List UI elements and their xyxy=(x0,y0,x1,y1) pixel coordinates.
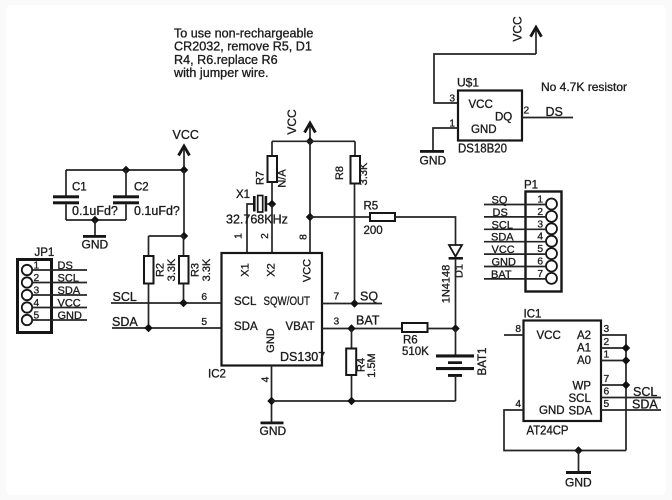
svg-text:1: 1 xyxy=(234,233,245,239)
svg-text:0.1uFd?: 0.1uFd? xyxy=(72,204,118,218)
svg-text:DS1307: DS1307 xyxy=(280,350,325,364)
svg-text:R6: R6 xyxy=(403,334,418,346)
resistor R2 xyxy=(144,236,178,328)
svg-text:CR2032, remove R5, D1: CR2032, remove R5, D1 xyxy=(174,40,312,54)
node junction crystal R7 xyxy=(268,200,276,208)
svg-text:2: 2 xyxy=(260,233,271,239)
node junction C2 top xyxy=(122,166,130,174)
svg-text:A1: A1 xyxy=(577,343,591,355)
svg-text:X1: X1 xyxy=(240,263,252,276)
svg-text:SCL: SCL xyxy=(492,219,513,231)
svg-text:DS: DS xyxy=(58,260,73,272)
op-amp U$1 box xyxy=(449,76,529,156)
svg-text:U$1: U$1 xyxy=(457,76,479,90)
svg-text:VCC: VCC xyxy=(537,330,561,342)
svg-text:GND: GND xyxy=(260,424,287,438)
svg-text:X2: X2 xyxy=(266,263,278,276)
svg-text:BAT1: BAT1 xyxy=(477,348,489,376)
svg-text:SDA: SDA xyxy=(234,321,258,333)
wire A1 xyxy=(601,347,626,349)
svg-text:GND: GND xyxy=(492,257,517,269)
wire R2 R3 top rail xyxy=(149,235,185,237)
svg-text:7: 7 xyxy=(604,374,610,385)
svg-text:DS18B20: DS18B20 xyxy=(458,142,507,156)
note text xyxy=(173,26,313,80)
wire pin8 VCC drop xyxy=(309,141,311,253)
crystal X1 xyxy=(226,189,288,253)
wire WP xyxy=(601,384,626,386)
node junction R2 R3 rail xyxy=(180,232,188,240)
svg-text:JP1: JP1 xyxy=(35,247,55,259)
VCC symbol middle xyxy=(285,109,317,141)
ground IC1 xyxy=(565,471,592,490)
node junction R3 SCL xyxy=(179,299,187,307)
svg-text:SCL: SCL xyxy=(234,296,257,308)
wire JP1 pin4 VCC xyxy=(32,298,87,310)
svg-text:200: 200 xyxy=(364,225,383,237)
wire R5 to D1 xyxy=(395,217,456,245)
svg-text:3: 3 xyxy=(604,324,610,335)
svg-text:C1: C1 xyxy=(72,182,87,194)
svg-text:GND: GND xyxy=(58,310,83,322)
wire SDA out xyxy=(601,398,661,412)
svg-text:AT24CP: AT24CP xyxy=(527,424,569,438)
wire to IC1 ground xyxy=(578,451,580,472)
svg-text:A0: A0 xyxy=(577,355,591,367)
node junction R4 bottom xyxy=(347,397,355,405)
resistor R8 xyxy=(334,141,370,303)
resistor R5 xyxy=(364,201,396,237)
resistor R3 xyxy=(179,236,213,303)
svg-text:510K: 510K xyxy=(402,346,429,358)
wire P1 pin6 GND xyxy=(484,257,546,269)
svg-text:IC2: IC2 xyxy=(208,369,226,381)
wire P1 pin1 SQ xyxy=(484,195,546,207)
resistor R7 xyxy=(255,141,289,204)
svg-text:SQW/OUT: SQW/OUT xyxy=(264,296,311,308)
node junction VCC mid xyxy=(306,137,314,145)
node DS wire xyxy=(522,105,573,119)
svg-text:DQ: DQ xyxy=(495,112,512,124)
wire VCC vertical down xyxy=(183,170,185,236)
svg-text:6: 6 xyxy=(201,292,207,303)
svg-text:with jumper wire.: with jumper wire. xyxy=(173,66,268,80)
wire P1 pin2 DS xyxy=(484,207,546,219)
svg-text:VCC: VCC xyxy=(58,298,81,310)
connector P1 xyxy=(524,180,562,292)
svg-text:R2: R2 xyxy=(155,263,167,277)
svg-text:WP: WP xyxy=(573,381,592,393)
svg-text:SDA: SDA xyxy=(112,315,138,329)
node junction GND bottom xyxy=(267,397,275,405)
svg-text:32.768KHz: 32.768KHz xyxy=(226,213,288,227)
wire SQ net xyxy=(322,290,382,304)
node junction A1 xyxy=(622,344,630,352)
wire IC1 pin8 stub xyxy=(504,334,524,336)
svg-text:SCL: SCL xyxy=(113,290,137,304)
wire to ground xyxy=(94,220,96,235)
svg-text:7: 7 xyxy=(334,292,340,303)
svg-text:5: 5 xyxy=(604,399,610,410)
ground C1 C2 xyxy=(82,235,109,252)
svg-text:2: 2 xyxy=(604,337,610,348)
svg-text:5: 5 xyxy=(201,317,207,328)
wire R6 to battery xyxy=(428,328,456,330)
node junction A0 xyxy=(622,356,630,364)
node junction VCC rail xyxy=(180,166,188,174)
svg-text:VCC: VCC xyxy=(302,259,314,282)
svg-text:R3: R3 xyxy=(190,263,202,277)
svg-text:8: 8 xyxy=(299,234,310,240)
wire IC2 pin4 down xyxy=(271,366,273,422)
IC2 DS1307 box xyxy=(208,253,325,381)
wire VCC to U$1 pin3 xyxy=(434,54,536,103)
wire P1 pin7 BAT xyxy=(484,269,546,281)
wire capacitor bottom rail xyxy=(66,219,126,221)
svg-text:3: 3 xyxy=(449,94,455,105)
svg-text:SDA: SDA xyxy=(632,398,658,412)
svg-text:2: 2 xyxy=(524,106,530,117)
svg-text:No 4.7K resistor: No 4.7K resistor xyxy=(541,80,627,94)
resistor R6 xyxy=(402,323,429,358)
svg-text:SCL: SCL xyxy=(569,393,592,405)
wire JP1 pin3 SDA xyxy=(32,285,87,297)
svg-text:VCC: VCC xyxy=(285,109,299,135)
wire A2 to ground column xyxy=(601,335,626,451)
svg-text:DS: DS xyxy=(493,207,508,219)
wire JP1 pin1 DS xyxy=(32,260,87,272)
svg-text:R7: R7 xyxy=(255,171,267,185)
svg-text:0.1uFd?: 0.1uFd? xyxy=(134,204,180,218)
ground U$1 xyxy=(420,150,447,168)
svg-text:GND: GND xyxy=(471,124,497,136)
IC1 AT24CP box xyxy=(524,309,602,438)
wire SDA net xyxy=(112,315,222,329)
wire JP1 pin5 GND xyxy=(32,310,87,322)
svg-text:3: 3 xyxy=(334,317,340,328)
svg-text:SDA: SDA xyxy=(569,406,593,418)
wire capacitor top rail xyxy=(66,169,184,171)
svg-text:VCC: VCC xyxy=(492,244,515,256)
svg-text:4: 4 xyxy=(515,399,521,410)
svg-text:VBAT: VBAT xyxy=(286,321,315,333)
svg-text:3.3K: 3.3K xyxy=(166,258,178,281)
wire SCL net xyxy=(111,290,222,304)
svg-text:SDA: SDA xyxy=(58,285,81,297)
svg-text:BAT: BAT xyxy=(356,314,380,328)
VCC symbol top-right xyxy=(511,16,543,54)
svg-text:SQ: SQ xyxy=(360,290,378,304)
node junction IC1 ground xyxy=(574,446,582,454)
wire JP1 pin2 SCL xyxy=(32,273,87,285)
wire SCL out xyxy=(601,385,661,399)
node junction WP xyxy=(622,381,630,389)
wire P1 pin3 SCL xyxy=(484,219,546,231)
wire R5 net left xyxy=(310,216,370,218)
wire bottom rail xyxy=(272,400,456,402)
wire crystal to pin2 xyxy=(271,204,273,253)
wire U$1 pin1 to ground xyxy=(433,128,458,150)
wire BAT net xyxy=(322,314,402,329)
svg-text:C2: C2 xyxy=(134,182,149,194)
wire D1 to BAT net xyxy=(455,260,457,329)
svg-text:3.3K: 3.3K xyxy=(358,162,370,185)
wire VCC mid rail xyxy=(272,140,355,142)
svg-text:GND: GND xyxy=(420,154,447,168)
svg-text:8: 8 xyxy=(515,324,521,335)
svg-text:4: 4 xyxy=(260,376,271,382)
wire A0 xyxy=(601,360,626,362)
battery BAT1 xyxy=(436,329,489,402)
svg-text:N/A: N/A xyxy=(277,169,289,188)
svg-text:DS: DS xyxy=(546,105,563,119)
svg-text:1: 1 xyxy=(604,350,610,361)
wire IC1 pin4 to ground rail xyxy=(504,410,626,451)
svg-text:3.3K: 3.3K xyxy=(201,258,213,281)
svg-text:P1: P1 xyxy=(524,180,538,192)
svg-text:GND: GND xyxy=(565,476,592,490)
svg-text:VCC: VCC xyxy=(511,16,525,42)
node junction R2 SDA xyxy=(144,324,152,332)
wire P1 pin4 SDA xyxy=(484,232,546,244)
svg-text:GND: GND xyxy=(82,238,109,252)
node junction D1 battery xyxy=(451,324,459,332)
svg-text:6: 6 xyxy=(604,387,610,398)
diode D1 xyxy=(441,245,466,303)
VCC symbol left xyxy=(173,128,199,170)
svg-text:VCC: VCC xyxy=(469,99,493,111)
node junction R4 BAT xyxy=(347,324,355,332)
svg-text:SQ: SQ xyxy=(492,195,508,207)
svg-text:IC1: IC1 xyxy=(524,309,542,321)
svg-text:To use non-rechargeable: To use non-rechargeable xyxy=(174,26,313,40)
svg-text:BAT: BAT xyxy=(491,269,512,281)
wire P1 pin5 VCC xyxy=(484,244,546,256)
node junction R8 SQ xyxy=(350,299,358,307)
svg-text:1.5M: 1.5M xyxy=(366,353,378,377)
svg-text:GND: GND xyxy=(265,328,277,353)
svg-text:R4, R6.replace R6: R4, R6.replace R6 xyxy=(174,53,278,67)
node junction GND tap xyxy=(91,216,99,224)
svg-text:A2: A2 xyxy=(577,330,591,342)
svg-text:SCL: SCL xyxy=(58,273,79,285)
ground IC2 xyxy=(260,422,287,439)
svg-text:R5: R5 xyxy=(364,201,379,213)
node junction R5 tap xyxy=(306,213,314,221)
svg-text:VCC: VCC xyxy=(173,128,199,142)
resistor R4 xyxy=(346,329,378,402)
svg-text:R8: R8 xyxy=(334,166,346,180)
svg-text:GND: GND xyxy=(539,405,565,417)
svg-text:1N4148: 1N4148 xyxy=(441,265,453,304)
svg-text:SDA: SDA xyxy=(491,232,514,244)
connector JP1 xyxy=(18,247,55,333)
capacitor C1 xyxy=(53,170,118,220)
svg-text:X1: X1 xyxy=(236,189,250,201)
capacitor C2 xyxy=(113,170,180,220)
